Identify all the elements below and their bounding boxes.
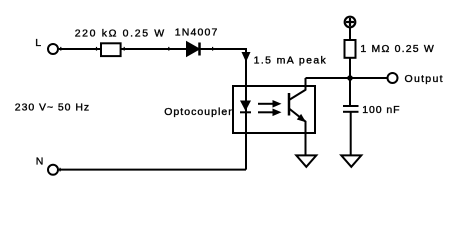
- svg-text:1.5 mA peak: 1.5 mA peak: [254, 54, 327, 66]
- svg-text:230 V~ 50 Hz: 230 V~ 50 Hz: [15, 101, 89, 113]
- svg-text:220 kΩ 0.25 W: 220 kΩ 0.25 W: [75, 28, 165, 40]
- svg-text:1N4007: 1N4007: [175, 27, 218, 39]
- svg-text:N: N: [36, 156, 44, 168]
- svg-text:100 nF: 100 nF: [362, 104, 399, 116]
- svg-text:1 MΩ 0.25 W: 1 MΩ 0.25 W: [360, 43, 433, 55]
- svg-text:Output: Output: [405, 73, 443, 85]
- svg-text:L: L: [35, 37, 41, 49]
- svg-text:Optocoupler: Optocoupler: [164, 106, 232, 118]
